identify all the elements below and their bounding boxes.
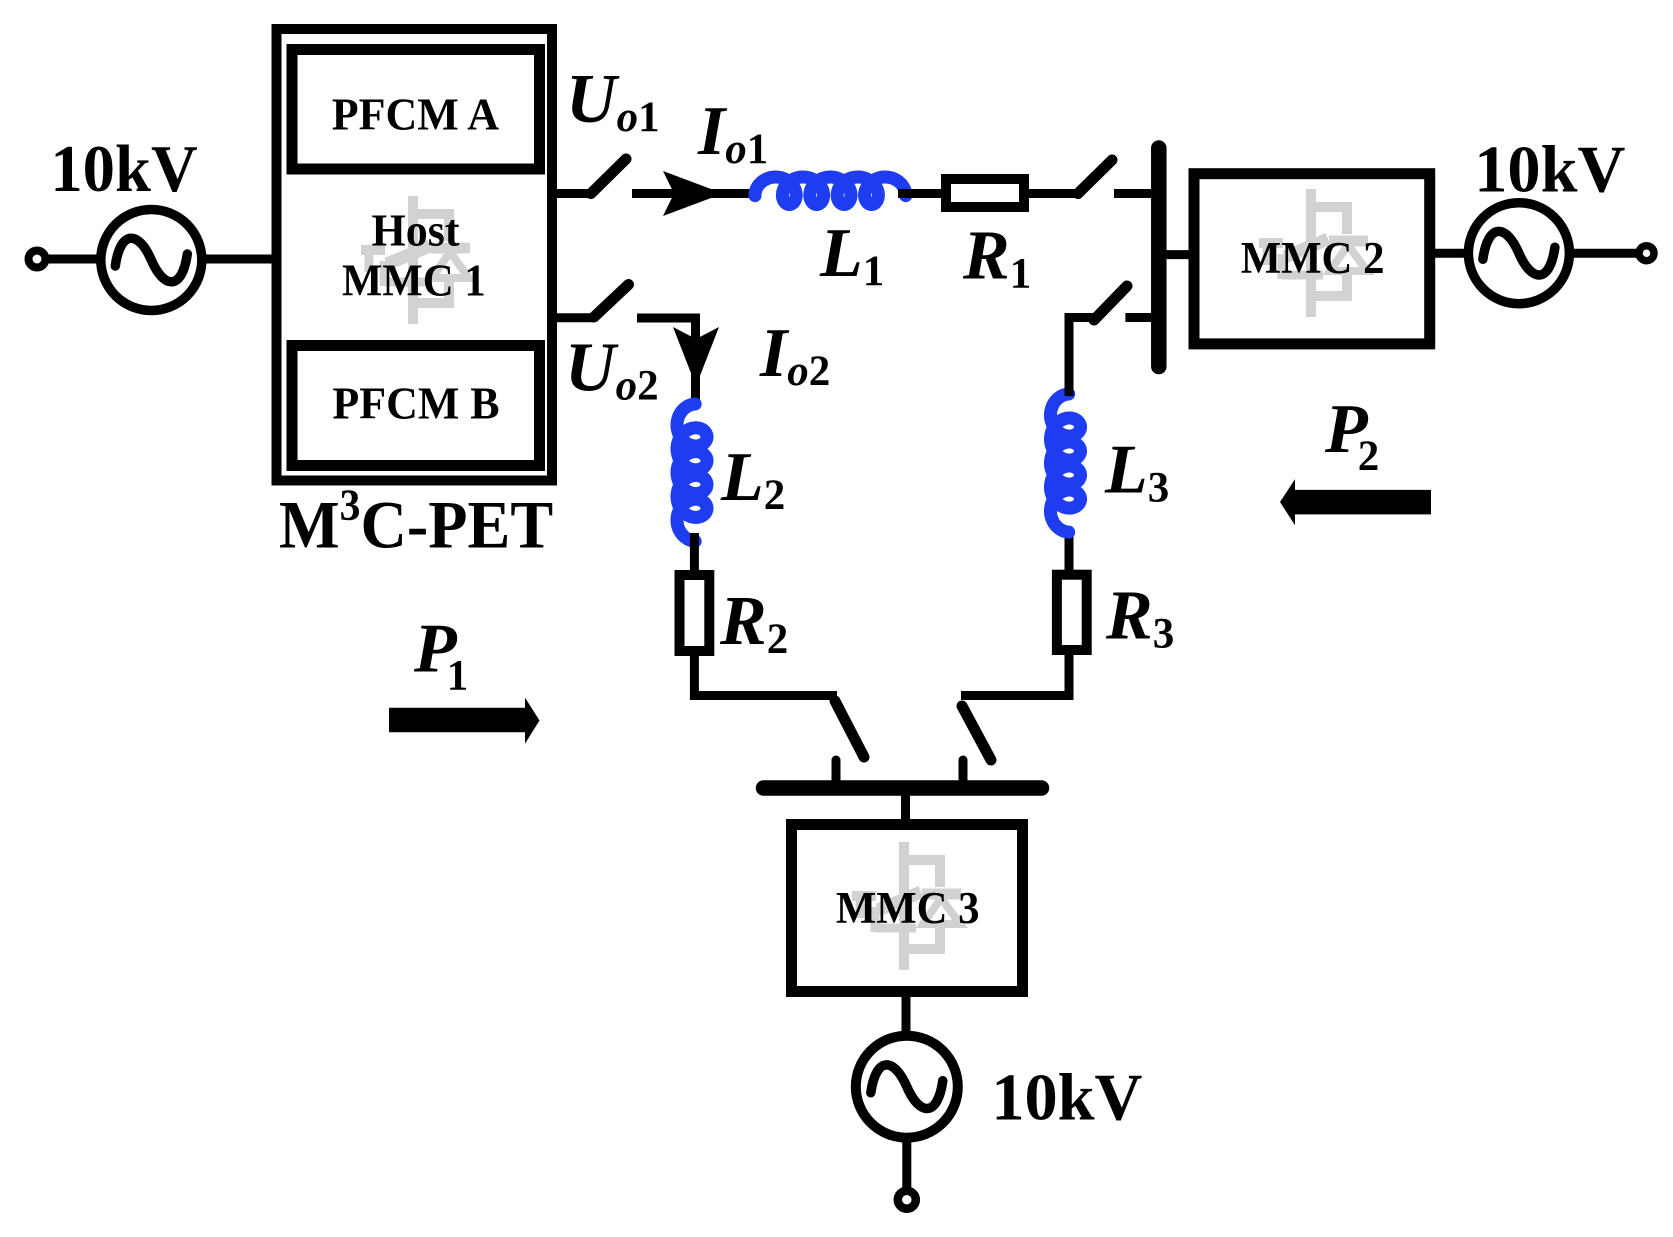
wire stub S2-to-bus	[1114, 189, 1153, 198]
igbt watermark U2	[1259, 189, 1368, 317]
ac source V3	[856, 1036, 958, 1138]
PFCM B box	[292, 346, 540, 466]
label 10kV right	[1474, 133, 1625, 206]
svg-text:Host: Host	[372, 204, 460, 255]
switch S2 blade	[1078, 160, 1112, 194]
wire source3-to-terminal	[902, 1138, 911, 1188]
svg-text:10kV: 10kV	[50, 132, 197, 206]
label Host MMC 1	[372, 204, 460, 255]
bus bar B3 horizontal	[764, 780, 1042, 796]
terminal bottom	[898, 1191, 916, 1209]
inductor L3	[1051, 394, 1081, 532]
wire source2-to-terminal	[1569, 249, 1640, 258]
label PFCM A	[332, 89, 500, 140]
wire S1-to-L1	[632, 189, 758, 198]
svg-text:PFCM A: PFCM A	[332, 89, 500, 140]
wire L1-to-R1	[898, 189, 944, 198]
converter box M3C-PET outer	[277, 29, 553, 481]
wire stub S6-to-bus	[1125, 313, 1153, 322]
PFCM A box	[292, 50, 540, 170]
label PFCM B	[332, 377, 499, 428]
wire corner-to-L3	[1069, 318, 1097, 397]
label MMC 3	[836, 882, 980, 934]
switch S1 blade	[591, 159, 626, 194]
resistor R2	[680, 575, 710, 651]
label 10kV left	[50, 132, 197, 206]
igbt watermark U1	[361, 196, 470, 324]
inductor L2	[677, 404, 707, 541]
svg-text:MMC 1: MMC 1	[342, 254, 486, 306]
resistor R1	[946, 179, 1024, 207]
MMC2 box	[1194, 174, 1430, 344]
switch S6 blade	[1094, 286, 1127, 320]
label MMC 2	[1241, 232, 1385, 284]
resistor R3	[1057, 575, 1087, 650]
power arrow P1	[389, 698, 540, 744]
wire source1-to-box	[202, 255, 274, 264]
wire R1-to-S2	[1029, 189, 1080, 198]
inductor L1	[755, 177, 906, 205]
current arrow Io2	[673, 327, 719, 386]
wire bus-to-MMC2	[1164, 250, 1196, 259]
svg-text:10kV: 10kV	[991, 1061, 1142, 1134]
wire L2-to-R2	[690, 533, 699, 573]
label M3C-PET	[279, 482, 553, 563]
power arrow P2	[1280, 479, 1431, 525]
wire stub lower switch S3	[556, 313, 595, 322]
wire L3-to-R3	[1065, 528, 1074, 572]
svg-text:PFCM B: PFCM B	[332, 377, 499, 428]
MMC3 box	[792, 825, 1023, 992]
wire S5-to-R3	[961, 652, 1069, 696]
wire stub S4-to-bus	[832, 760, 841, 784]
svg-text:MMC 3: MMC 3	[836, 882, 980, 934]
ac source V1	[101, 210, 202, 311]
terminal right	[1639, 246, 1654, 261]
wire bus-to-MMC3	[901, 792, 910, 822]
terminal left	[29, 251, 46, 268]
current arrow Io1	[663, 171, 723, 216]
wire terminal-to-source1	[47, 255, 101, 264]
igbt watermark U3	[852, 842, 961, 970]
wire stub S5-to-bus	[959, 760, 968, 784]
switch S3 blade	[594, 285, 629, 318]
wire R2-to-S4	[694, 654, 837, 696]
switch S4 blade	[835, 701, 864, 757]
svg-text:10kV: 10kV	[1474, 133, 1625, 206]
wire stub upper switch S1	[556, 189, 594, 198]
svg-text:M3C-PET: M3C-PET	[279, 482, 553, 563]
label 10kV bottom	[991, 1061, 1142, 1134]
svg-text:MMC 2: MMC 2	[1241, 232, 1385, 284]
wire S3-to-corner	[637, 318, 696, 408]
switch S5 blade	[962, 706, 991, 760]
ac source V2	[1468, 203, 1569, 304]
wire MMC2-to-source2	[1433, 249, 1470, 258]
wire MMC3-to-source3	[902, 994, 911, 1038]
bus bar B2 vertical	[1151, 148, 1167, 367]
